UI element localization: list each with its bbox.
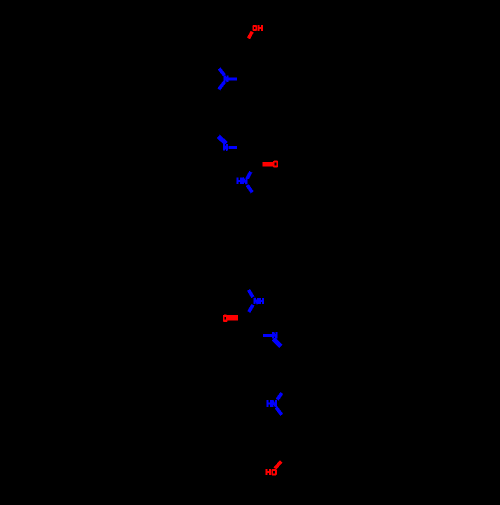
wire N1 right bond to methyl: [228, 77, 236, 80]
hydroxyl O4 label "HO": [267, 469, 277, 476]
wire NH2 up-left bond to ring: [249, 290, 253, 297]
wire NH2 down-left bond to carbonyl: [249, 305, 253, 312]
amine N1 label "N": [224, 76, 227, 83]
imine N2 label "N": [224, 144, 227, 151]
wire C=N2 double bond (blue half, merged): [218, 136, 226, 143]
hydroxyl O1 label "OH": [252, 25, 261, 31]
wire O4-C bond (red half): [275, 461, 281, 468]
carbonyl C=O2 double bond (red bar): [262, 162, 272, 167]
wire N2 right bond: [228, 146, 237, 149]
carbonyl O3 label "O": [223, 315, 228, 322]
wire N1 down-left bond: [219, 82, 225, 90]
wire HN4 up-right bond: [277, 393, 282, 400]
wire C=N3 double bond (blue half, merged): [273, 339, 281, 347]
amine HN4 label "HN": [268, 400, 276, 407]
imine N3 label "N": [273, 332, 276, 338]
wire HN1 up-right bond to carbonyl: [247, 172, 251, 179]
amide HN1 label "HN": [237, 178, 246, 185]
wire O1-C bond (red half): [249, 32, 253, 39]
carbonyl O2 label "O": [273, 161, 278, 168]
wire N1 up-left bond: [219, 69, 224, 76]
amide NH2 label "NH": [254, 298, 263, 304]
wire HN1 down-right bond to ring: [247, 185, 252, 192]
wire HN4 down-right bond: [276, 407, 282, 415]
wire N3 left bond: [263, 334, 272, 337]
carbonyl C=O3 double bond (red bar): [228, 315, 238, 320]
